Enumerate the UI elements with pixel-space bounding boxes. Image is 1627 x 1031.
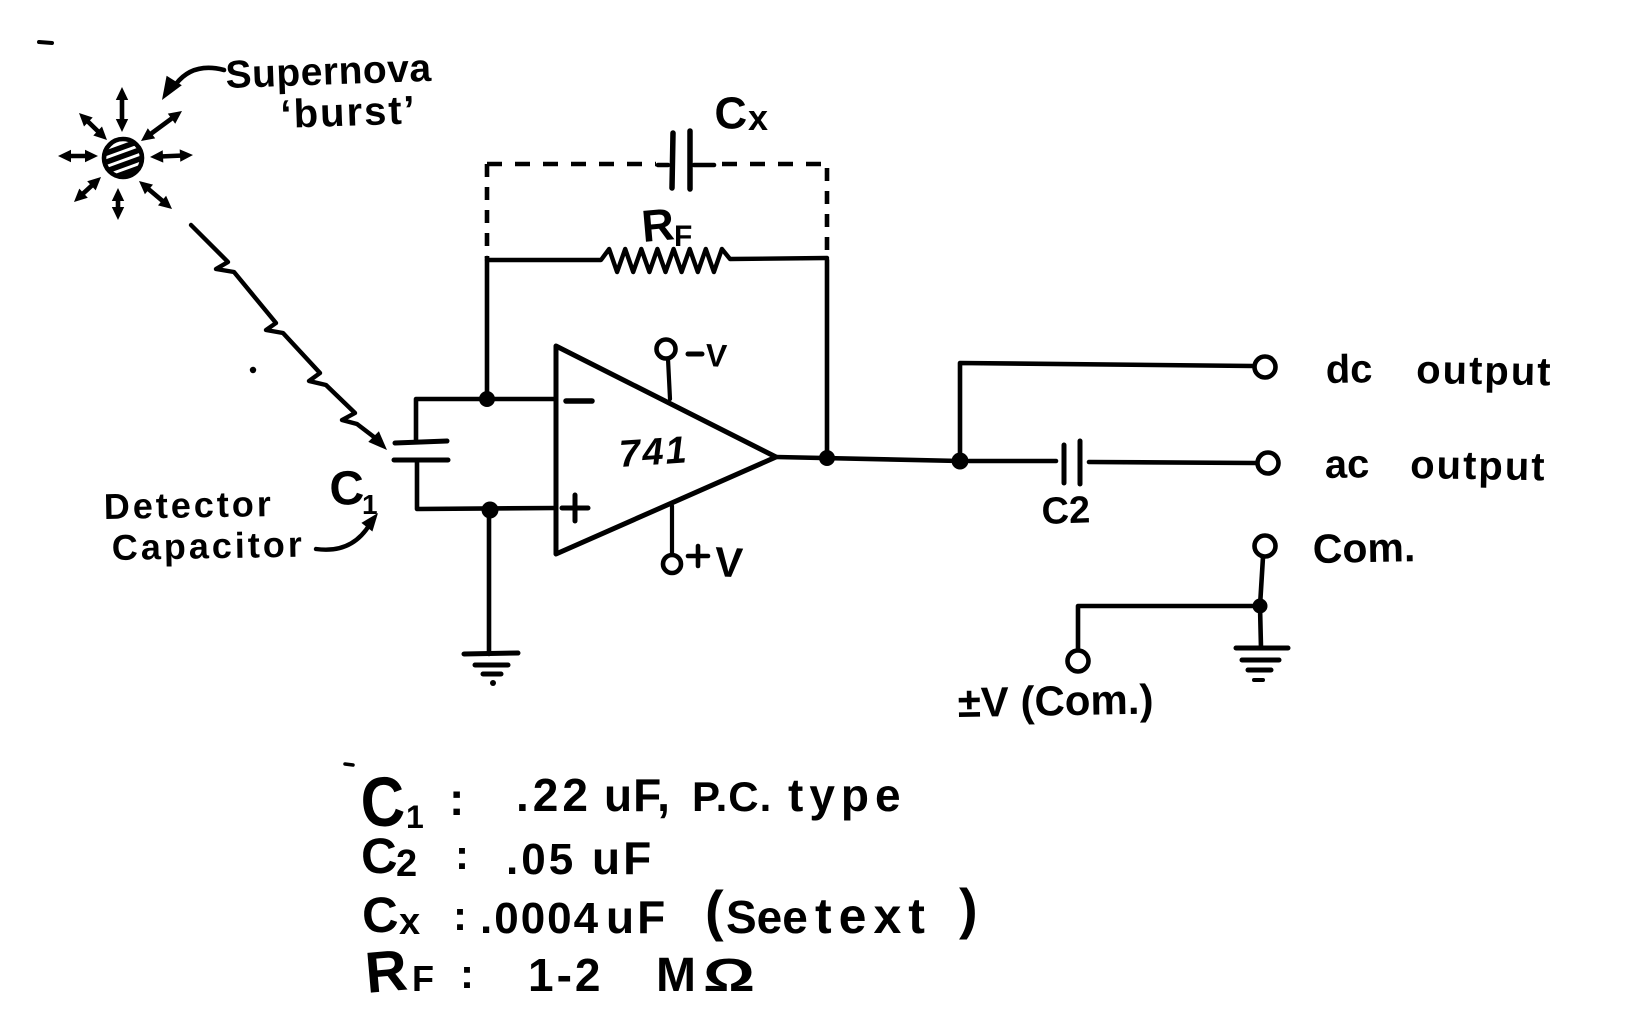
svg-text:.22: .22 — [516, 769, 592, 821]
wire com to plus-minus V — [1078, 606, 1260, 648]
burst ray arrow down — [116, 198, 121, 210]
svg-text::: : — [455, 831, 469, 878]
wire com down to ground node — [1260, 557, 1263, 606]
label -V — [688, 352, 702, 357]
annotation arrow to C1 — [316, 524, 370, 550]
svg-text:R: R — [639, 198, 676, 252]
terminal ac output — [1258, 453, 1279, 474]
burst ray arrow up-right — [149, 117, 174, 135]
wire ac output left segment — [969, 459, 1056, 464]
svg-text:text: text — [815, 888, 932, 944]
supernova burst symbol — [101, 139, 145, 182]
terminal +V supply — [663, 555, 681, 573]
svg-text:V: V — [714, 538, 744, 586]
label minus input — [566, 398, 592, 404]
junction non-inverting input node — [482, 502, 499, 519]
svg-text:±V (Com.): ±V (Com.) — [957, 676, 1154, 726]
terminal com — [1255, 536, 1276, 557]
svg-text:uF: uF — [606, 891, 668, 943]
svg-text:Capacitor: Capacitor — [111, 524, 305, 568]
capacitor C1 top plate — [395, 441, 447, 443]
ground output side — [1236, 646, 1288, 651]
svg-text:1: 1 — [406, 799, 424, 835]
burst ray arrow right — [160, 156, 183, 157]
svg-text:F: F — [674, 220, 692, 253]
svg-text:dc: dc — [1325, 347, 1372, 392]
capacitor C2 left plate — [1062, 445, 1067, 483]
svg-text:.05: .05 — [506, 835, 576, 884]
capacitor C2 right plate — [1078, 441, 1083, 484]
terminal -V supply — [657, 340, 676, 359]
svg-text:R: R — [362, 938, 409, 1006]
svg-text:C: C — [714, 87, 748, 139]
wire dashed Cx branch right vertical — [825, 168, 830, 260]
svg-text:C: C — [360, 827, 399, 885]
svg-text:V: V — [705, 337, 729, 374]
svg-text:C2: C2 — [1041, 489, 1091, 533]
svg-text:Ω: Ω — [703, 949, 755, 1001]
svg-text:uF: uF — [592, 832, 654, 884]
wire non-inverting input to ground — [487, 510, 492, 654]
svg-text:Detector: Detector — [103, 483, 274, 527]
burst ray arrow down-right — [147, 188, 165, 203]
svg-text:Com.: Com. — [1312, 524, 1415, 572]
wire dashed Cx branch right segment — [722, 162, 829, 167]
svg-text:2: 2 — [396, 843, 417, 885]
terminal plus-minus V common — [1068, 651, 1089, 672]
capacitor C1 bottom plate — [394, 458, 448, 463]
svg-text:x: x — [399, 901, 420, 943]
svg-text:x: x — [748, 97, 768, 138]
junction com ground node — [1253, 599, 1268, 614]
svg-text:output: output — [1410, 443, 1547, 489]
svg-text:ac: ac — [1324, 442, 1369, 487]
wire op-amp output — [776, 457, 960, 461]
annotation arrow to burst — [176, 68, 224, 84]
junction inverting input node — [479, 391, 495, 407]
wire ac output right segment — [1089, 462, 1255, 463]
wire +V to op-amp — [670, 506, 674, 555]
svg-text:(: ( — [705, 879, 724, 942]
wire -V to op-amp — [668, 359, 670, 399]
terminal dc output — [1255, 357, 1276, 378]
wire dashed Cx branch left stub — [658, 163, 668, 168]
svg-text:M: M — [656, 949, 696, 1002]
svg-text:output: output — [1416, 348, 1553, 394]
svg-text:1: 1 — [362, 489, 378, 520]
svg-text:See: See — [726, 891, 808, 943]
svg-text:F: F — [412, 958, 434, 999]
svg-text:type: type — [788, 769, 907, 821]
annotation lightning arrow from burst to detector — [191, 225, 374, 437]
burst ray arrow up — [120, 97, 125, 122]
burst ray arrow down-left — [81, 184, 93, 195]
wire C1 top stem — [416, 399, 556, 441]
wire feedback left vertical — [485, 258, 490, 399]
junction feedback output node — [819, 450, 835, 466]
svg-text:C: C — [361, 886, 400, 944]
svg-text:P.C.: P.C. — [692, 773, 772, 820]
wire C1 bottom stem — [417, 460, 556, 509]
wire feedback right vertical — [825, 260, 830, 458]
wire dashed Cx branch right stub — [694, 163, 714, 168]
resistor RF — [487, 249, 827, 272]
svg-text:‘burst’: ‘burst’ — [280, 88, 418, 137]
label plus input — [562, 506, 588, 511]
svg-text:uF,: uF, — [604, 769, 671, 821]
burst ray arrow up-left — [86, 120, 100, 133]
svg-text::: : — [453, 892, 467, 939]
op-amp U1 741 triangle — [556, 346, 776, 554]
capacitor Cx left plate — [672, 133, 673, 188]
svg-text:1-2: 1-2 — [528, 949, 603, 1001]
svg-text::: : — [460, 950, 474, 997]
svg-text:741: 741 — [618, 429, 690, 476]
svg-text:C: C — [329, 462, 366, 516]
wire dashed Cx branch left vertical — [485, 164, 490, 258]
burst ray arrow left — [68, 154, 88, 159]
wire ground stub output side — [1260, 606, 1261, 648]
svg-text::: : — [449, 773, 464, 825]
ground input side — [464, 653, 518, 654]
wire dc output branch — [960, 363, 1253, 461]
label +V — [688, 554, 708, 559]
wire dashed Cx branch left segment — [487, 162, 656, 167]
junction dc/ac split node — [952, 453, 969, 470]
capacitor Cx right plate — [687, 131, 693, 189]
svg-text:): ) — [959, 877, 978, 940]
svg-text:.0004: .0004 — [480, 894, 600, 943]
